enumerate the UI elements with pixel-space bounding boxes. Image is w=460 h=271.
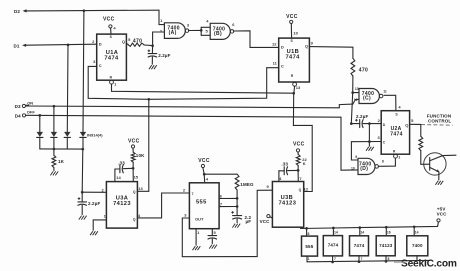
svg-text:1K: 1K [58, 159, 65, 164]
svg-text:ON: ON [27, 100, 33, 105]
svg-text:8: 8 [382, 159, 384, 163]
svg-text:7474: 7474 [285, 55, 300, 61]
svg-text:13: 13 [355, 87, 359, 91]
svg-text:7474: 7474 [390, 132, 403, 138]
wire: U3A pin1 to ground [93, 220, 106, 230]
node: cap right junction [368, 122, 371, 125]
wire: gate C input 2 stub [353, 99, 359, 104]
svg-text:5: 5 [128, 37, 131, 42]
ground below C7 [232, 224, 235, 228]
svg-text:11: 11 [273, 60, 278, 65]
wire: 555 pin 7 [219, 206, 237, 208]
svg-text:Q: Q [133, 190, 136, 194]
wire: D4 OFF input line [22, 114, 25, 117]
node: 555 pin7 junction [236, 205, 239, 208]
wire: U2A Q output [410, 123, 421, 125]
resistor base Rb [420, 124, 422, 136]
capacitor 2.2uF at U3A pin2 [81, 192, 83, 202]
diode CR3 IN914 [64, 132, 70, 137]
svg-text:74123: 74123 [278, 200, 296, 206]
node: D3 junction [53, 105, 56, 108]
wire: clear line U1A to U1B [112, 84, 294, 93]
svg-text:2: 2 [378, 118, 381, 123]
node: clock junction [147, 98, 150, 101]
diode CR1 IN914 [39, 115, 41, 131]
svg-text:SeekIC.com: SeekIC.com [401, 259, 457, 270]
svg-text:555: 555 [305, 244, 313, 249]
wire: bus down to U3A pin 2 [81, 149, 84, 192]
node: 22K/cap junction [297, 169, 300, 172]
wire: gate C out to U2A pin 4 [384, 95, 396, 110]
wire: gate B input tie bar [200, 27, 202, 35]
wire: to U3B pin 7 top [297, 170, 299, 181]
svg-text:(D): (D) [360, 166, 368, 172]
svg-text:C: C [99, 63, 102, 68]
svg-text:2: 2 [183, 188, 186, 193]
svg-text:S: S [290, 39, 293, 43]
svg-text:2.2µF: 2.2µF [88, 201, 100, 206]
svg-text:4: 4 [279, 176, 282, 181]
wire: U1B Q output to 470 [309, 47, 353, 59]
svg-text:13: 13 [296, 85, 301, 90]
wire: D2 branch down to diode D4th [82, 11, 85, 132]
svg-text:470: 470 [133, 39, 142, 45]
node: VCC/1MEG junction [203, 173, 206, 176]
svg-text:(C): (C) [363, 96, 371, 102]
nand gate 7400 (D) [358, 158, 375, 174]
nand gate 7400 (C) [359, 89, 379, 104]
svg-text:µF: µF [246, 219, 252, 224]
flip-flop U1A 7474 box [97, 34, 127, 80]
svg-text:3: 3 [377, 135, 380, 140]
wire: gate B out to U1B pin D [233, 31, 278, 48]
collector [430, 155, 456, 161]
U1B clear bubble pin 13 [293, 82, 297, 86]
svg-text:3: 3 [184, 213, 187, 218]
wire: D3 ON input line [22, 104, 25, 107]
svg-text:IN914(4): IN914(4) [87, 133, 103, 138]
svg-text:7474: 7474 [354, 243, 365, 248]
svg-text:7: 7 [334, 257, 336, 261]
wire: 555 pin 6 [219, 197, 237, 199]
wire: +5V bus to IC power pins [301, 222, 439, 229]
node: cap left junction [350, 122, 353, 125]
svg-text:1MEG: 1MEG [240, 182, 254, 187]
ground below C6 [209, 245, 212, 249]
svg-text:Q: Q [405, 123, 408, 128]
wire: vertical down to cap node [351, 93, 352, 124]
svg-text:.33: .33 [118, 161, 125, 166]
svg-text:14: 14 [334, 231, 338, 235]
flip-flop U1B 7474 box [279, 38, 310, 82]
wire: to U3A pin 2 [82, 191, 106, 193]
diode CR2 IN914 [53, 106, 55, 132]
emitter with arrow [430, 167, 439, 172]
resistor R3 470 vertical [351, 58, 355, 76]
resistor R6 22K [296, 155, 300, 166]
one-shot U3B 74123 box [272, 182, 303, 228]
wire: gate A out to gate B inputs [188, 29, 201, 31]
wire: 555 pin 1 to ground [195, 229, 197, 246]
svg-text:14: 14 [360, 231, 364, 235]
wire: down to ground [368, 142, 370, 147]
svg-text:11: 11 [383, 89, 387, 93]
ground below U2A C wire [366, 147, 369, 151]
svg-text:Q: Q [122, 39, 125, 44]
svg-text:2.2µF: 2.2µF [158, 53, 170, 58]
timer 555 box [189, 183, 219, 229]
svg-text:S: S [395, 113, 398, 117]
svg-text:D2: D2 [14, 9, 20, 14]
capacitor C3 .33 [123, 167, 133, 169]
node: junction 470/cap/gateA [151, 44, 154, 47]
svg-text:Q: Q [299, 188, 302, 192]
svg-text:4: 4 [398, 105, 401, 110]
svg-text:D4: D4 [15, 114, 21, 119]
svg-text:8: 8 [387, 257, 389, 261]
svg-text:9: 9 [266, 184, 269, 189]
svg-text:1: 1 [160, 18, 163, 23]
node: D4 junction [38, 114, 41, 117]
wire: up to gate A input 2 [153, 32, 165, 46]
wire: to U3A pin 15 [132, 168, 134, 181]
capacitor C7 2.2uF at 555 pins 6-7 [233, 215, 242, 217]
svg-text:OUT: OUT [195, 216, 204, 221]
svg-text:C: C [383, 141, 386, 145]
svg-text:VCC: VCC [286, 14, 298, 20]
wire: clock vertical to U3A output 13 [148, 99, 150, 191]
svg-text:(B): (B) [214, 31, 222, 37]
node: junction on U2A C wire [368, 140, 371, 143]
svg-text:2: 2 [160, 28, 163, 33]
node: 555 pin6 junction [236, 197, 239, 200]
flip-flop U2A 7474 box [381, 111, 409, 155]
svg-text:VCC: VCC [198, 158, 210, 164]
svg-text:9: 9 [311, 41, 314, 46]
svg-text:VCC: VCC [260, 219, 271, 224]
svg-text:7474: 7474 [328, 243, 339, 248]
svg-text:VCC: VCC [437, 212, 448, 217]
ground at 555 pin 1 [193, 246, 196, 250]
wire: cap to U2A pin D [369, 123, 381, 125]
node: U3A trigger junction [81, 191, 84, 194]
wire: to transistor base [421, 163, 430, 165]
svg-text:1: 1 [308, 257, 310, 261]
svg-text:6: 6 [220, 194, 223, 199]
node: D1 junction [67, 44, 70, 47]
svg-text:9: 9 [355, 155, 357, 159]
wire: ground bus under power boxes [307, 260, 430, 261]
power box 7474 second [350, 236, 369, 256]
ground below cap [79, 216, 82, 220]
resistor R2 1K [53, 149, 55, 155]
svg-text:2: 2 [92, 39, 95, 44]
svg-text:4: 4 [206, 177, 209, 182]
wire: across to 1MEG [204, 173, 237, 175]
power box 555 [302, 236, 318, 256]
svg-text:S: S [110, 35, 113, 39]
svg-text:74123: 74123 [379, 243, 393, 248]
svg-text:470: 470 [359, 68, 368, 74]
svg-text:14: 14 [116, 175, 121, 180]
wire: to U3A pin 14 [114, 169, 116, 182]
svg-text:10: 10 [293, 31, 298, 36]
svg-text:12: 12 [304, 186, 309, 191]
node: D2 junction [83, 9, 86, 12]
svg-text:15: 15 [134, 174, 139, 179]
svg-text:.33: .33 [281, 161, 288, 166]
svg-text:14: 14 [415, 230, 419, 234]
svg-text:Q: Q [305, 44, 308, 49]
svg-text:R: R [291, 74, 294, 78]
svg-text:K: K [303, 161, 306, 166]
wire: D4 line corner down to gate D input 2 [341, 117, 358, 170]
svg-text:VCC: VCC [103, 16, 115, 22]
resistor R1 470 at U1A Q output [126, 43, 128, 45]
svg-text:VCC: VCC [128, 139, 140, 145]
nand gate 7400 (A) [164, 23, 185, 39]
svg-text:(A): (A) [169, 30, 177, 36]
svg-text:1: 1 [197, 230, 200, 235]
wire: to U3B pin 4 top [278, 171, 280, 182]
svg-text:3: 3 [187, 23, 190, 28]
svg-text:7474: 7474 [104, 56, 119, 62]
capacitor C1 2.2uF [151, 46, 153, 54]
wire: D3 line corner to gate C input 2 [339, 104, 353, 108]
svg-text:CONTROL: CONTROL [428, 119, 451, 124]
svg-text:4: 4 [206, 19, 209, 24]
ground below 1K [50, 171, 53, 175]
wire: U3A output 4 to 555 trigger [137, 193, 189, 218]
svg-text:7: 7 [192, 192, 194, 196]
svg-text:2.2µF: 2.2µF [356, 114, 368, 119]
svg-text:D: D [281, 45, 284, 50]
U2A clear bubble pin 1 [394, 154, 398, 158]
wire: 555 OUT to U3B trigger pin 9 [182, 190, 272, 257]
wire: stub into gate C input 1 [353, 92, 359, 94]
node: junction at gate C input [351, 91, 354, 94]
wire: U3A output 13 to clock vertical [137, 190, 148, 192]
VCC terminal at U3B left [267, 215, 270, 218]
resistor R5 1MEG [235, 174, 239, 190]
svg-text:D: D [383, 123, 386, 127]
svg-text:1: 1 [398, 155, 401, 160]
wire: clock line to U1B pin C [149, 68, 279, 100]
wire: D1 input line [22, 44, 26, 47]
svg-text:Q: Q [133, 217, 136, 221]
resistor R4 10K [131, 152, 135, 162]
capacitor C6 at 555 pin 5 [211, 229, 213, 236]
power box 7474 first [323, 236, 342, 256]
svg-text:555: 555 [196, 199, 207, 205]
svg-text:16: 16 [387, 230, 391, 234]
capacitor C8 .33 at U3B [288, 169, 299, 171]
svg-text:74123: 74123 [113, 201, 131, 207]
node: clear junction at U1B pin 13 [292, 92, 295, 95]
U1A clear bubble pin 1 [110, 80, 114, 84]
power box 74123 [376, 236, 395, 256]
wire: D2 to gate A input 1 [159, 10, 164, 24]
svg-text:10: 10 [351, 167, 355, 171]
svg-text:7: 7 [360, 257, 362, 261]
svg-text:5: 5 [213, 230, 216, 235]
svg-text:5: 5 [411, 118, 414, 123]
svg-text:D: D [99, 41, 102, 46]
wire: diode common bus [40, 148, 83, 150]
svg-text:7400: 7400 [412, 243, 423, 248]
svg-text:C: C [281, 63, 284, 68]
svg-text:6: 6 [232, 22, 235, 27]
svg-text:7: 7 [299, 176, 302, 181]
svg-text:OFF: OFF [27, 109, 36, 114]
one-shot U3A 74123 box [106, 182, 137, 229]
svg-text:3: 3 [93, 59, 96, 64]
node: 10K/cap junction [132, 167, 135, 170]
svg-text:7: 7 [220, 202, 223, 207]
wire: FUNCTION CONTROL dashed line [421, 124, 453, 127]
power box 7400 [407, 236, 428, 256]
svg-text:5: 5 [205, 28, 208, 33]
svg-text:4: 4 [113, 25, 116, 30]
wire: D2 input line [23, 9, 27, 12]
svg-text:R: R [110, 76, 113, 80]
svg-text:10K: 10K [136, 153, 145, 158]
diode CR4 IN914 [80, 132, 86, 137]
svg-text:13: 13 [138, 186, 143, 191]
svg-text:D3: D3 [15, 104, 21, 109]
svg-text:12: 12 [354, 98, 358, 102]
wire: D1 branch down to diode 3 [66, 45, 69, 132]
svg-text:VCC: VCC [293, 141, 305, 147]
wire: to 555 pin 4 [203, 174, 206, 183]
ground below emitter [435, 181, 438, 185]
wire: U2A pin C to gate D input 1 [351, 142, 381, 161]
ground at U3A pin 1 [90, 231, 93, 235]
svg-text:D1: D1 [13, 43, 19, 48]
svg-text:8: 8 [307, 232, 309, 236]
wire: clear line down to U3B output 12 [293, 93, 312, 191]
transistor Q1 [424, 153, 446, 175]
ground below C1 [149, 65, 152, 69]
wire: U1A pin C stub to clock line [88, 66, 149, 99]
wire: cap node down to C pin wire [368, 124, 370, 142]
svg-text:1: 1 [114, 81, 117, 86]
capacitor C5 2.2uF at U2A pin D [351, 123, 359, 125]
wire: gate D out to U2A pin 1 [378, 158, 395, 166]
svg-text:R: R [393, 150, 396, 154]
svg-text:12: 12 [272, 41, 277, 46]
nand gate 7400 (B) [210, 23, 230, 39]
